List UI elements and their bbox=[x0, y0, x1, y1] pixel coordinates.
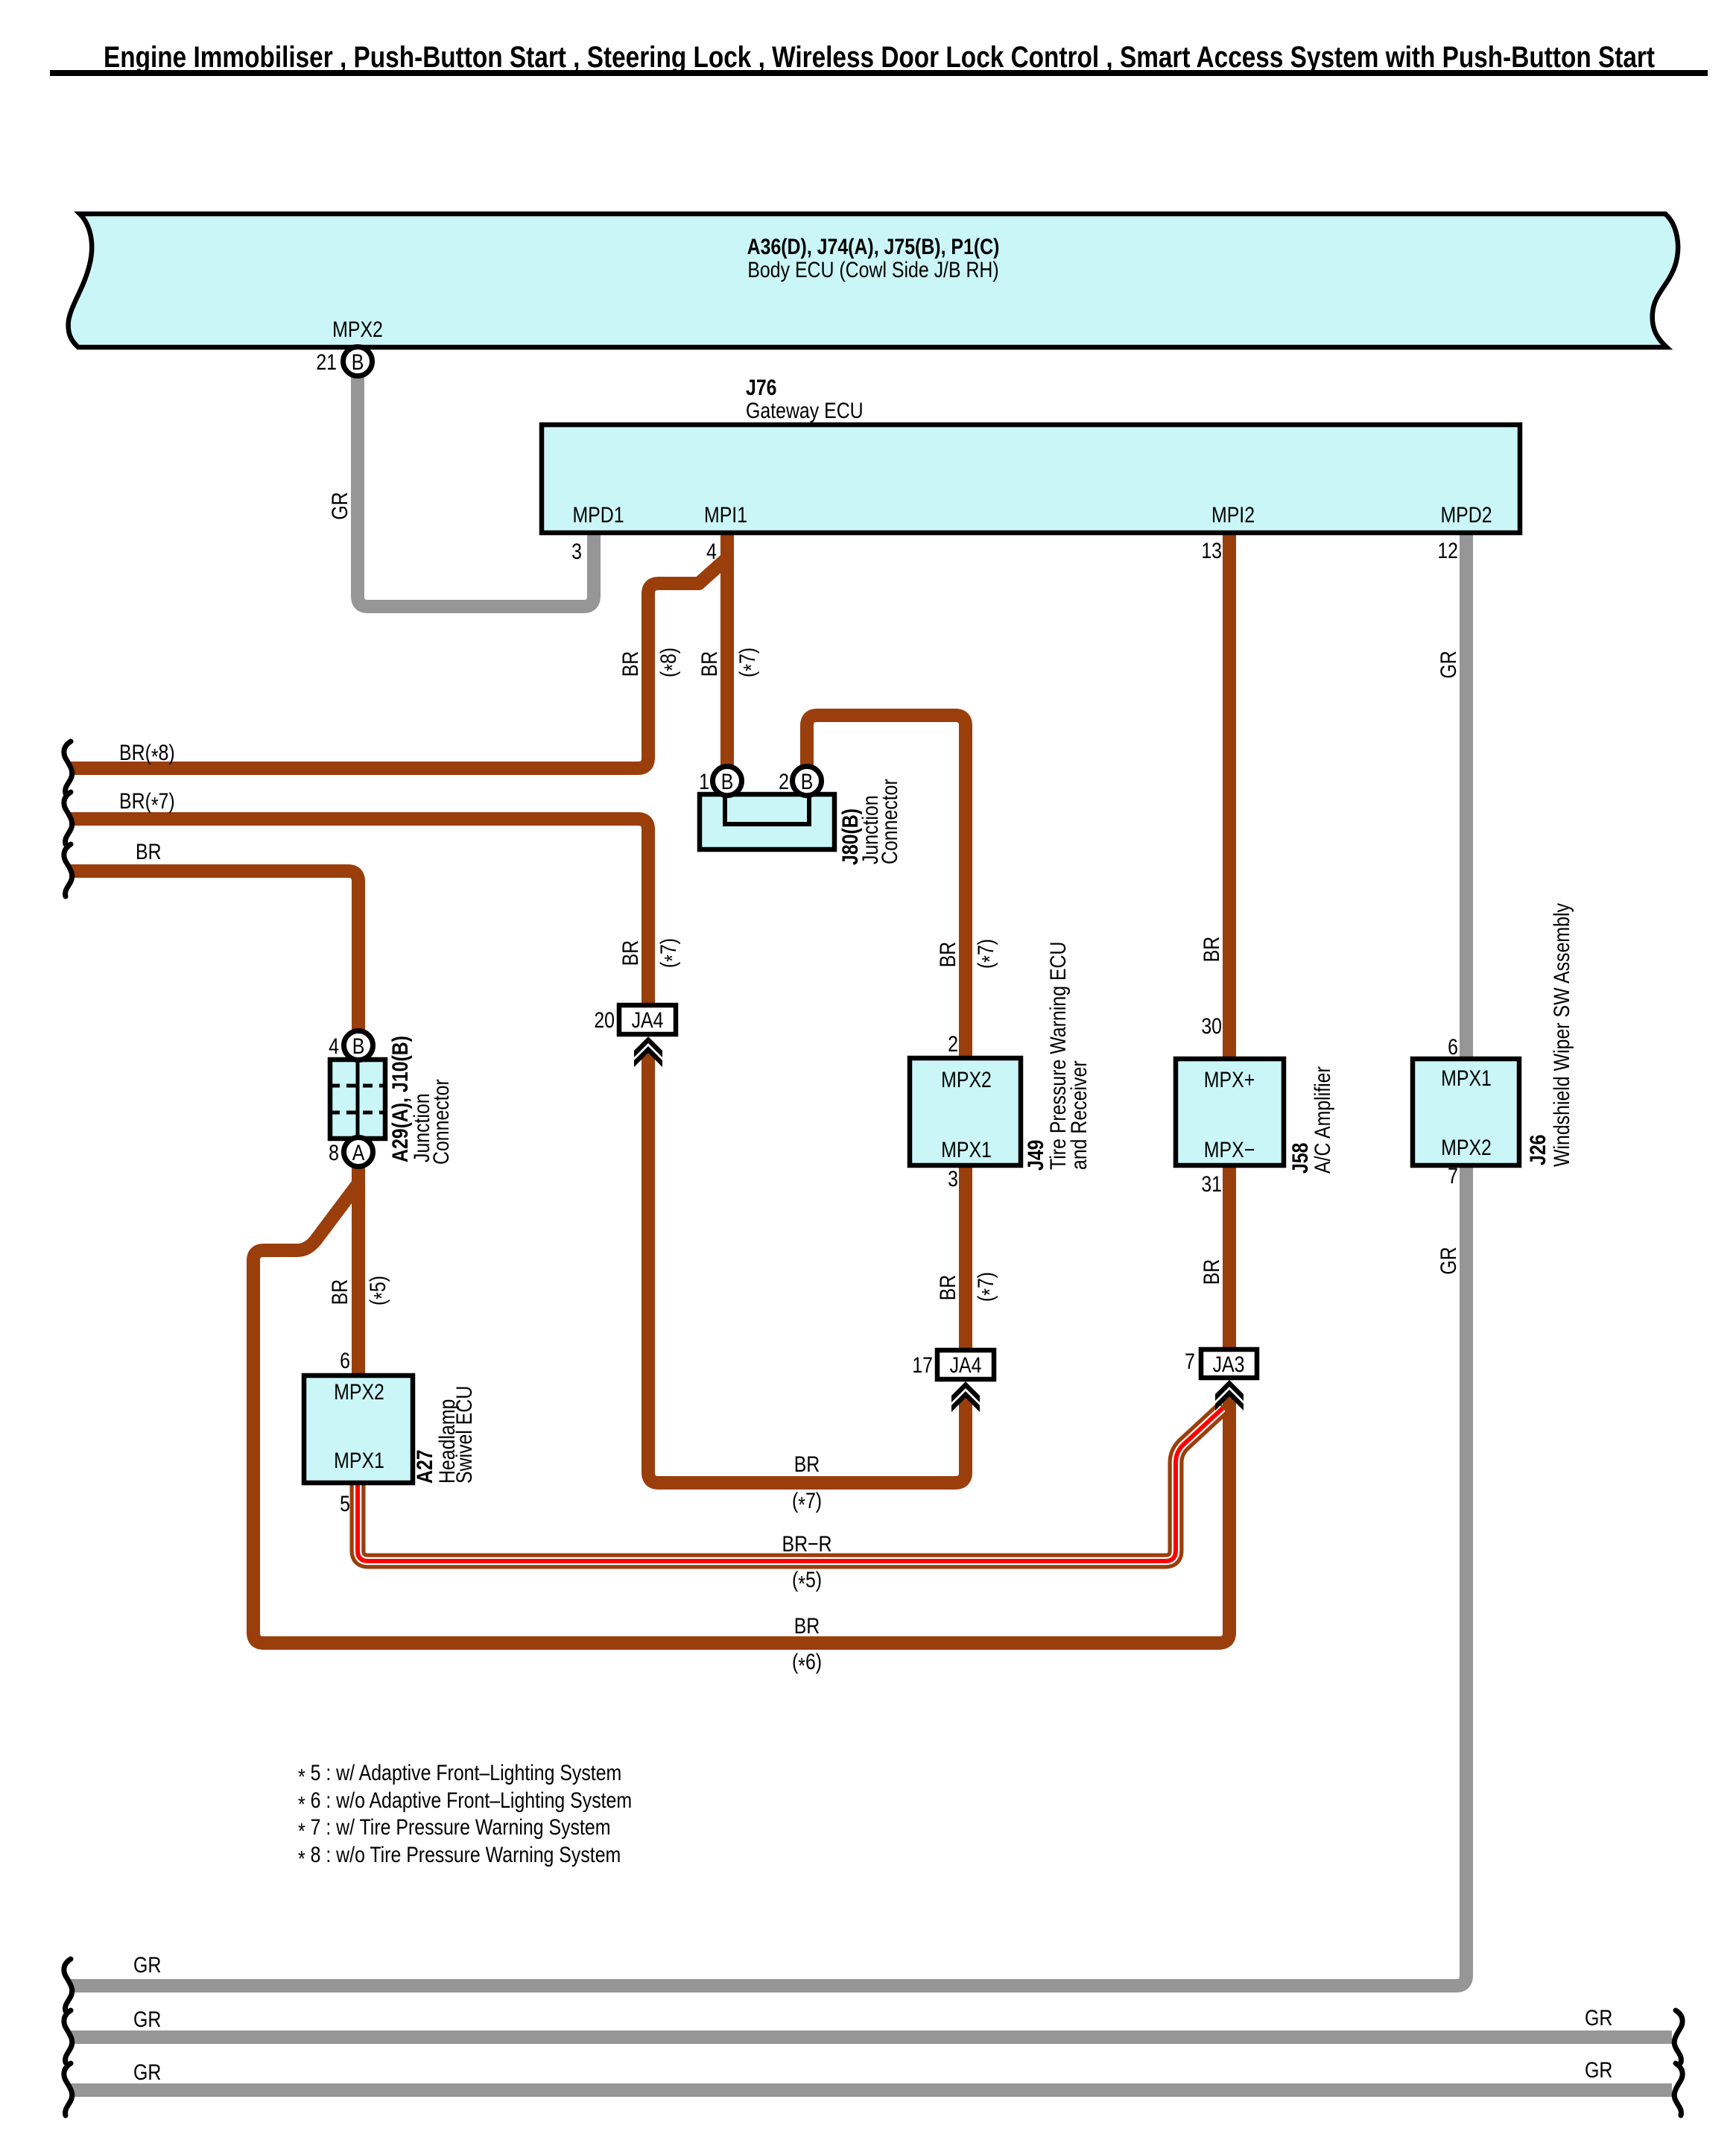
svg-text:BR: BR bbox=[327, 1279, 352, 1305]
svg-text:13: 13 bbox=[1201, 538, 1222, 563]
pointed wire tip below JA3 7 bbox=[1223, 1394, 1236, 1402]
title underline bbox=[50, 70, 1708, 76]
ECU box A36/J74/J75/P1 Body ECU (torn-edge sides) bbox=[69, 214, 1679, 347]
svg-text:BR: BR bbox=[618, 940, 643, 966]
svg-text:Connector: Connector bbox=[428, 1079, 454, 1165]
svg-text:MPX1: MPX1 bbox=[334, 1448, 384, 1473]
wire BR-R white separator bbox=[358, 1408, 1223, 1561]
wire BR(*7): left stub to x=870 down through JA4 20, corner right, up to J49 MPX1 pin 3 bbox=[69, 819, 648, 1007]
svg-text:MPD2: MPD2 bbox=[1440, 502, 1492, 528]
BREAK SYMBOLS (wire continuation squiggles) bbox=[64, 741, 1682, 2115]
svg-text:BR−R: BR−R bbox=[782, 1531, 831, 1557]
svg-text:(*7): (*7) bbox=[792, 1488, 822, 1517]
svg-text:(*6): (*6) bbox=[792, 1649, 822, 1678]
pin circle 21 B on Body ECU bbox=[343, 347, 373, 376]
connector JA4 pin 20 bbox=[619, 1005, 676, 1034]
svg-text:A/C Amplifier: A/C Amplifier bbox=[1310, 1066, 1335, 1174]
svg-text:6: 6 bbox=[340, 1348, 350, 1373]
pin circle 2 B on J80 bbox=[793, 767, 822, 796]
wire BR(*8): branch from pin 4 diagonal, down at x=870, left to stub bbox=[69, 558, 727, 768]
svg-text:6: 6 bbox=[1448, 1034, 1458, 1060]
svg-text:A27: A27 bbox=[412, 1449, 437, 1484]
wire BR: A29 pin 8A down to A27 MPX2 pin 6 bbox=[352, 1162, 365, 1377]
svg-text:JA4: JA4 bbox=[632, 1007, 664, 1033]
svg-text:JA3: JA3 bbox=[1213, 1352, 1245, 1377]
svg-text:Windshield Wiper SW Assembly: Windshield Wiper SW Assembly bbox=[1549, 903, 1574, 1167]
break symbol right of GR bottom stub 3 bbox=[1674, 2063, 1682, 2115]
svg-text:2: 2 bbox=[779, 769, 789, 794]
wire BR: left stub to A29 pin 4B bbox=[69, 871, 358, 1033]
pin circle 4 B on A29 bbox=[344, 1031, 373, 1060]
junction connector J80(B) inner notch bbox=[725, 797, 809, 824]
ECU box J49 Tire Pressure Warning ECU and Receiver bbox=[910, 1058, 1021, 1165]
ECU box A27 Headlamp Swivel ECU bbox=[304, 1376, 413, 1483]
ECU box J58 A/C Amplifier bbox=[1176, 1059, 1284, 1165]
svg-text:BR: BR bbox=[697, 651, 722, 677]
svg-text:GR: GR bbox=[133, 1952, 161, 1978]
svg-text:2: 2 bbox=[948, 1031, 958, 1057]
break symbol right of GR bottom stub 2 bbox=[1674, 2010, 1682, 2063]
svg-text:(*5): (*5) bbox=[792, 1567, 822, 1596]
svg-text:JA4: JA4 bbox=[950, 1352, 982, 1378]
wire GR bottom stub 2 bbox=[69, 2031, 1672, 2044]
svg-text:(*8): (*8) bbox=[656, 648, 685, 677]
pin circle 8 A on A29 bbox=[344, 1138, 373, 1167]
svg-text:12: 12 bbox=[1437, 538, 1458, 563]
connector JA3 pin 7 bbox=[1201, 1349, 1257, 1378]
svg-text:BR(*7): BR(*7) bbox=[119, 788, 175, 817]
svg-text:B: B bbox=[801, 769, 814, 794]
svg-text:B: B bbox=[721, 769, 734, 794]
svg-text:and Receiver: and Receiver bbox=[1066, 1060, 1092, 1170]
wire BR: J58 MPX- pin 31 down to JA3 bbox=[1223, 1164, 1236, 1351]
svg-text:GR: GR bbox=[1436, 651, 1461, 678]
svg-text:BR(*8): BR(*8) bbox=[119, 740, 175, 769]
wire BR(*6): branch below A29 pin 8A, left elbow, down, right along bottom, up to JA3 bbox=[253, 1183, 1229, 1643]
break symbol left of GR bottom stub 1 bbox=[64, 1959, 72, 2011]
svg-text:7: 7 bbox=[1185, 1349, 1195, 1374]
svg-text:17: 17 bbox=[912, 1352, 933, 1378]
svg-text:MPX1: MPX1 bbox=[941, 1137, 992, 1162]
svg-text:* 5 : w/ Adaptive Front–Lighti: * 5 : w/ Adaptive Front–Lighting System bbox=[298, 1760, 621, 1789]
wire GR: J26 MPX2 pin 7 down, corner, left to bottom stub 1 bbox=[69, 1164, 1466, 1986]
svg-text:Gateway ECU: Gateway ECU bbox=[746, 398, 864, 423]
svg-text:MPX2: MPX2 bbox=[941, 1067, 992, 1092]
svg-text:4: 4 bbox=[706, 539, 717, 564]
junction connector A29(A),J10(B) grid bbox=[330, 1060, 385, 1139]
svg-text:5: 5 bbox=[340, 1491, 350, 1516]
svg-text:8: 8 bbox=[329, 1140, 339, 1165]
svg-text:Swivel ECU: Swivel ECU bbox=[452, 1386, 477, 1484]
svg-text:J76: J76 bbox=[746, 375, 777, 400]
svg-text:BR: BR bbox=[935, 1275, 960, 1301]
ECU box J26 Windshield Wiper SW Assembly bbox=[1413, 1059, 1519, 1165]
svg-text:BR: BR bbox=[136, 839, 162, 864]
break symbol left of BR(*7) stub bbox=[64, 792, 72, 844]
svg-text:MPI2: MPI2 bbox=[1211, 502, 1255, 528]
svg-text:A: A bbox=[352, 1140, 365, 1165]
svg-text:MPD1: MPD1 bbox=[572, 502, 624, 528]
svg-text:MPX2: MPX2 bbox=[334, 1379, 384, 1405]
svg-text:* 8 : w/o Tire Pressure Warnin: * 8 : w/o Tire Pressure Warning System bbox=[298, 1842, 621, 1871]
pin circle 1 B on J80 bbox=[713, 767, 742, 796]
svg-text:* 6 : w/o Adaptive Front–Light: * 6 : w/o Adaptive Front–Lighting System bbox=[298, 1788, 632, 1817]
pointed wire tip below JA4 20 bbox=[642, 1052, 655, 1060]
svg-text:(*7): (*7) bbox=[973, 1272, 1002, 1302]
wire BR: J76 MPI1 pin 4 down to J80 pin 1 bbox=[720, 531, 734, 770]
wire BR-R (*5): A27 MPX1 pin 5 down, right, up, diagonal to JA3 (brown base) bbox=[358, 1407, 1224, 1561]
svg-text:BR: BR bbox=[935, 942, 960, 968]
svg-text:BR: BR bbox=[618, 651, 643, 677]
wire BR: J80 pin 2 up, right, down to J49 MPX2 pin 2 bbox=[807, 715, 966, 1060]
svg-text:GR: GR bbox=[1585, 2005, 1612, 2031]
svg-text:20: 20 bbox=[594, 1007, 615, 1033]
wire BR(*7): J49 MPX1 pin 3 down to JA4 17 box bbox=[959, 1164, 972, 1352]
wire GR: J76 MPD2 pin 12 down to J26 MPX1 pin 6 bbox=[1460, 531, 1473, 1060]
svg-text:B: B bbox=[352, 349, 364, 375]
svg-text:GR: GR bbox=[1585, 2057, 1612, 2083]
svg-text:* 7 : w/ Tire Pressure Warning: * 7 : w/ Tire Pressure Warning System bbox=[298, 1814, 610, 1843]
wire GR bottom stub 3 bbox=[69, 2083, 1672, 2097]
break symbol left of GR bottom stub 2 bbox=[64, 2010, 72, 2063]
connector JA4 pin 17 bbox=[937, 1350, 994, 1379]
wire BR-R red stripe bbox=[358, 1408, 1223, 1561]
pointed wire tip below JA4 17 bbox=[959, 1397, 972, 1405]
svg-text:(*5): (*5) bbox=[365, 1276, 394, 1305]
svg-text:BR: BR bbox=[1199, 1259, 1224, 1285]
break symbol left of BR(*8) stub bbox=[64, 741, 72, 794]
svg-text:B: B bbox=[352, 1034, 365, 1059]
svg-text:1: 1 bbox=[699, 769, 709, 794]
svg-text:J49: J49 bbox=[1023, 1139, 1048, 1171]
svg-text:MPX2: MPX2 bbox=[332, 317, 383, 342]
svg-text:MPX−: MPX− bbox=[1204, 1137, 1255, 1162]
svg-text:Body ECU (Cowl Side J/B RH): Body ECU (Cowl Side J/B RH) bbox=[747, 257, 998, 282]
svg-text:3: 3 bbox=[948, 1166, 958, 1191]
svg-text:J26: J26 bbox=[1525, 1134, 1550, 1165]
junction connector J80(B) bbox=[700, 794, 834, 849]
svg-text:Engine Immobiliser , Push-Butt: Engine Immobiliser , Push-Button Start ,… bbox=[104, 41, 1655, 74]
svg-text:(*7): (*7) bbox=[735, 648, 764, 677]
break symbol left of BR stub bbox=[64, 844, 72, 896]
svg-text:Connector: Connector bbox=[877, 779, 902, 864]
svg-text:3: 3 bbox=[571, 539, 582, 564]
chevron arrows under JA4 20 bbox=[634, 1036, 662, 1057]
svg-text:7: 7 bbox=[1448, 1163, 1458, 1188]
svg-text:GR: GR bbox=[1436, 1247, 1461, 1274]
svg-text:(*7): (*7) bbox=[656, 938, 685, 968]
svg-text:4: 4 bbox=[329, 1034, 339, 1059]
wire BR: J76 MPI2 pin 13 down to J58 MPX+ pin 30 bbox=[1223, 531, 1236, 1060]
svg-text:BR: BR bbox=[1199, 937, 1224, 963]
svg-text:MPX+: MPX+ bbox=[1204, 1067, 1255, 1092]
svg-text:21: 21 bbox=[316, 349, 337, 375]
svg-text:MPX2: MPX2 bbox=[1441, 1135, 1492, 1160]
svg-text:MPX1: MPX1 bbox=[1441, 1066, 1492, 1091]
svg-text:GR: GR bbox=[133, 2060, 161, 2085]
svg-text:31: 31 bbox=[1201, 1171, 1222, 1197]
wire GR: Body ECU pin 21B to J76 MPD1 pin 3 bbox=[358, 373, 594, 607]
svg-text:(*7): (*7) bbox=[973, 939, 1002, 969]
chevron arrows under JA4 17 bbox=[951, 1381, 980, 1402]
chevron arrows under JA3 7 bbox=[1215, 1380, 1244, 1401]
svg-text:BR: BR bbox=[794, 1613, 820, 1639]
wire BR(*7): below JA4 20 down, corner right, up to below JA4 17 bbox=[648, 1059, 966, 1483]
CHEVRONS bbox=[634, 1036, 1244, 1412]
PIN CIRCLES bbox=[343, 347, 822, 1167]
ECU box J76 Gateway ECU bbox=[542, 425, 1520, 533]
svg-text:BR: BR bbox=[794, 1452, 820, 1477]
svg-text:GR: GR bbox=[327, 492, 352, 519]
svg-text:J58: J58 bbox=[1287, 1142, 1313, 1174]
svg-text:A36(D), J74(A), J75(B), P1(C): A36(D), J74(A), J75(B), P1(C) bbox=[747, 234, 1000, 259]
svg-text:30: 30 bbox=[1201, 1013, 1222, 1039]
svg-text:GR: GR bbox=[133, 2007, 161, 2032]
svg-text:MPI1: MPI1 bbox=[704, 502, 747, 528]
break symbol left of GR bottom stub 3 bbox=[64, 2063, 72, 2115]
